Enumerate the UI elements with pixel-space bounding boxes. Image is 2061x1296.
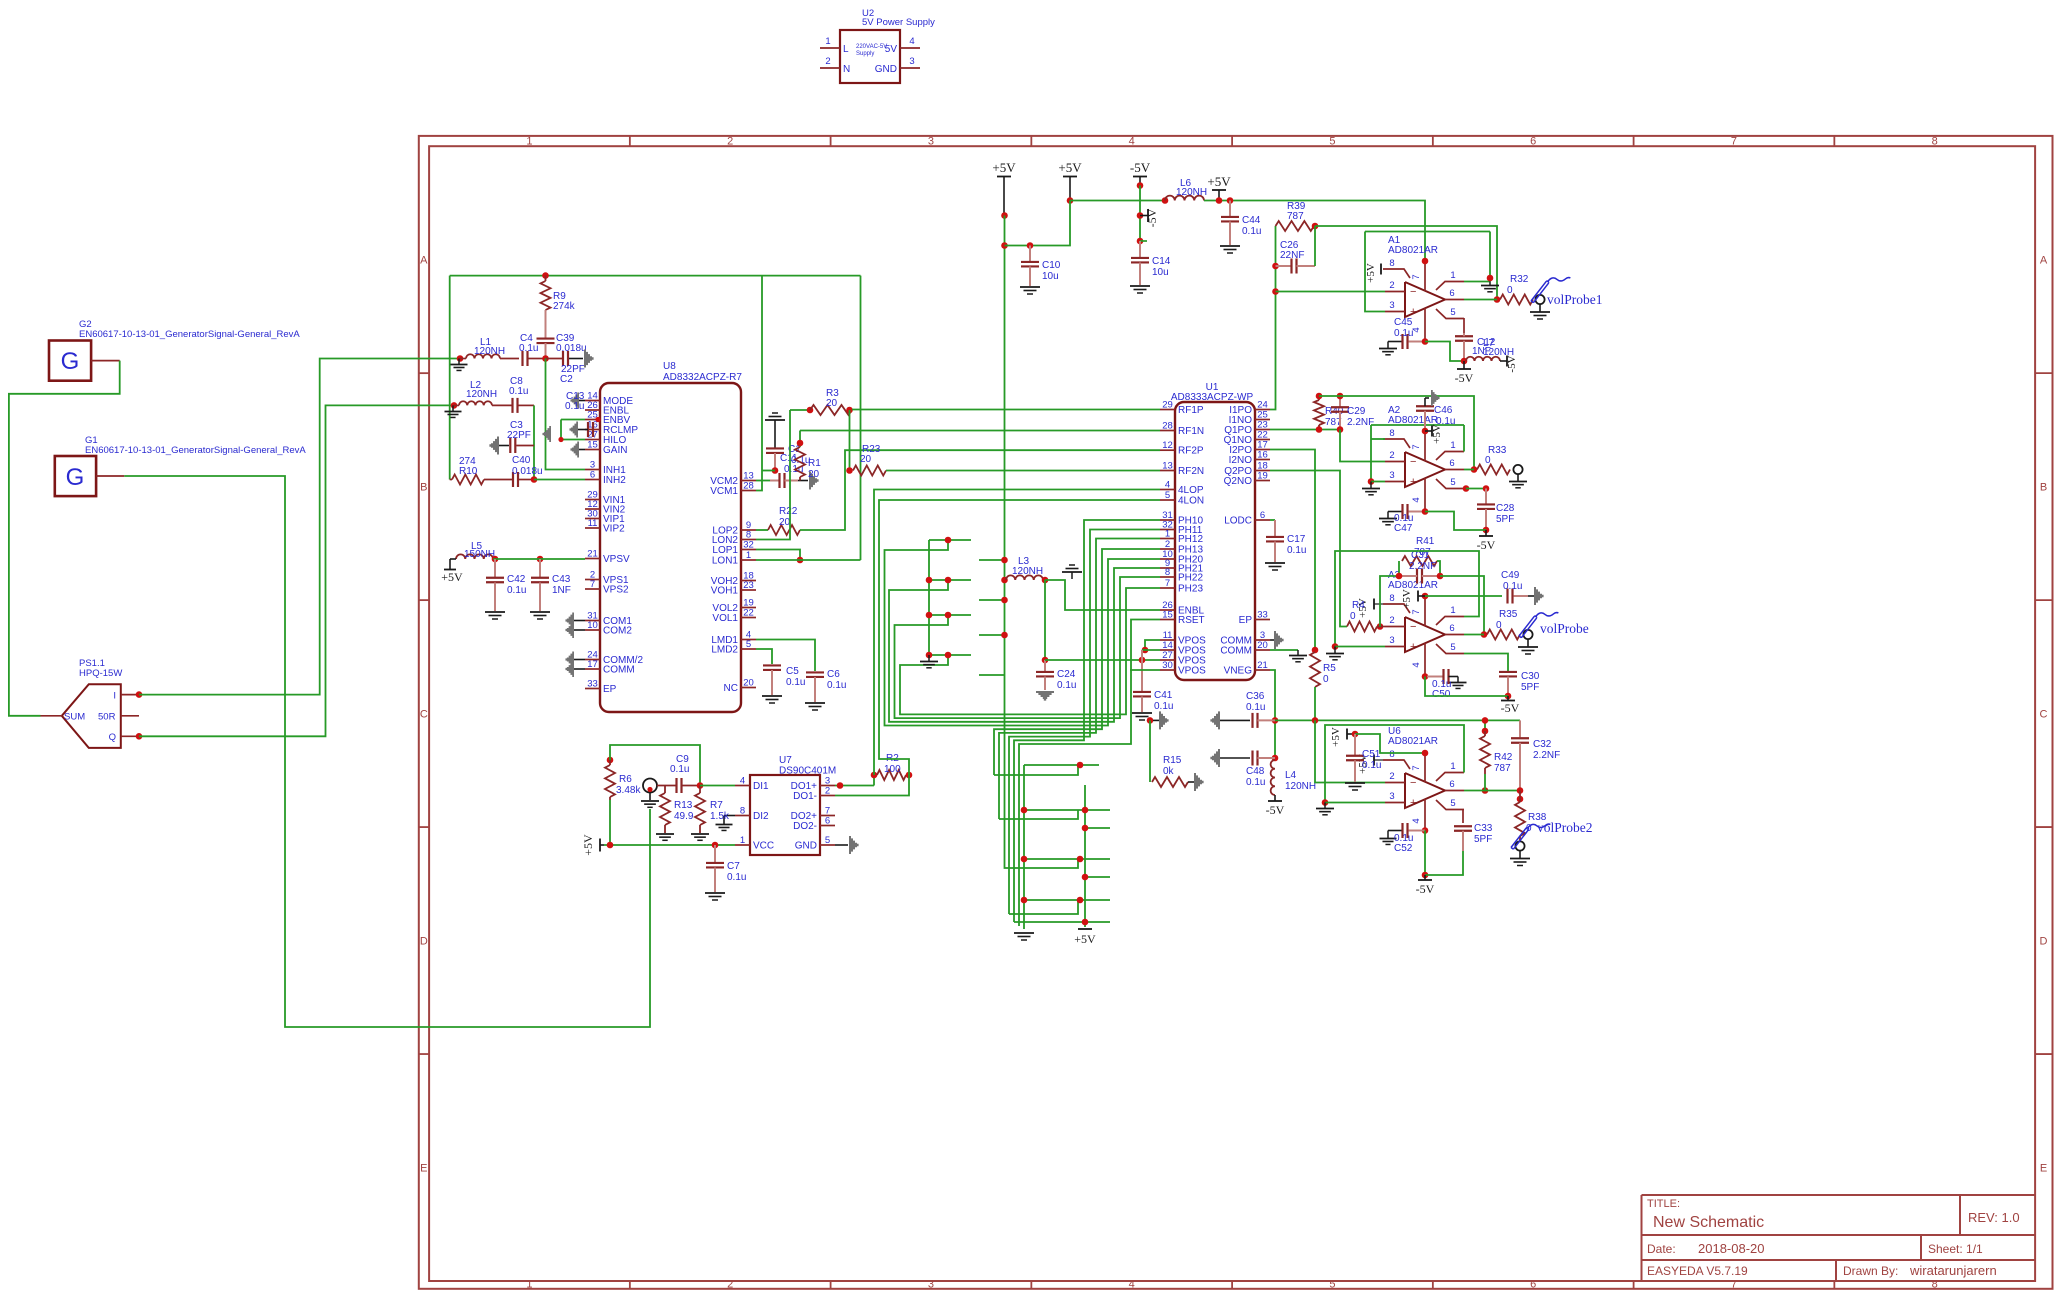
svg-text:VCC: VCC (753, 841, 774, 852)
svg-text:20: 20 (860, 454, 872, 465)
svg-text:3: 3 (1389, 635, 1394, 646)
resistor R44 0 (1347, 622, 1377, 632)
U8 pin 20 NC (741, 687, 756, 689)
wire PH20 route (885, 540, 1161, 726)
capacitor C47 0.1u (1388, 511, 1402, 513)
U1 pin 13 RF2N (1160, 470, 1175, 472)
svg-text:C: C (2040, 709, 2048, 721)
power supply module U2 (840, 30, 900, 83)
U8 pin 3 INH1 (585, 469, 600, 471)
U8 pin 15 GAIN (585, 449, 600, 451)
svg-text:5: 5 (1450, 642, 1455, 653)
+5V C51 node (1346, 729, 1348, 740)
svg-text:17: 17 (587, 659, 598, 670)
svg-text:C40: C40 (512, 455, 531, 466)
capacitor C52 0.1u (1422, 827, 1429, 834)
node -5V col (1137, 182, 1144, 189)
svg-text:C14: C14 (1152, 256, 1171, 267)
svg-text:EN60617-10-13-01_GeneratorSign: EN60617-10-13-01_GeneratorSignal-General… (85, 445, 306, 456)
svg-text:-5V: -5V (1266, 803, 1285, 817)
upper ladder stub y675 (979, 674, 1005, 676)
U6 pin 6 (1445, 790, 1464, 792)
svg-text:2: 2 (825, 56, 830, 67)
ground arrow GAIN (570, 442, 579, 458)
capacitor C26 22NF (1276, 265, 1292, 267)
svg-text:C49: C49 (1501, 570, 1520, 581)
U7 pin 7 DO2+ (820, 815, 835, 817)
inductor L4 120NH (1271, 760, 1275, 795)
resistor R1 20 (799, 431, 801, 448)
node C4 C39 junction (542, 355, 549, 362)
svg-text:DI2: DI2 (753, 811, 769, 822)
capacitor C36 0.1u (1210, 711, 1220, 729)
svg-text:6: 6 (590, 469, 595, 480)
svg-text:VOL1: VOL1 (712, 613, 738, 624)
U1 pin 33 EP (1255, 619, 1270, 621)
svg-text:DI1: DI1 (753, 781, 769, 792)
wire A3 fb left (1380, 576, 1399, 627)
svg-text:G: G (61, 348, 80, 375)
op-amp U6 AD8021AR (1405, 773, 1445, 808)
upper ladder rung y615 (929, 614, 971, 616)
wire PH13 route (994, 549, 1160, 775)
node R41 C31 right (1437, 573, 1444, 580)
earth above VCM cap (772, 412, 778, 414)
upper ladder rail (928, 540, 930, 655)
U7 pin 1 VCC (735, 844, 750, 846)
svg-text:8: 8 (1165, 567, 1170, 578)
U7 pin 2 DO1- (820, 795, 835, 797)
A3 pin 1 (1436, 617, 1464, 626)
svg-text:New Schematic: New Schematic (1653, 1214, 1764, 1231)
U1 pin 19 Q2NO (1255, 480, 1270, 482)
ground at L2 input (452, 405, 454, 411)
resistor R42 787 (1484, 720, 1486, 731)
svg-text:C33: C33 (1474, 823, 1493, 834)
svg-text:volProbe: volProbe (1540, 621, 1589, 636)
svg-text:VPSV: VPSV (603, 554, 630, 565)
node C36 (1272, 717, 1279, 724)
svg-text:wiratarunjarern: wiratarunjarern (1909, 1263, 1997, 1278)
svg-text:2: 2 (1389, 615, 1394, 626)
U6 pin 5 (1436, 800, 1464, 810)
PS1.1 pin Q (121, 735, 139, 737)
svg-text:4: 4 (1411, 662, 1422, 667)
wire +5V branch to C10 (1005, 201, 1071, 246)
svg-text:5: 5 (1329, 1279, 1335, 1291)
+5V lower ladder (1078, 928, 1092, 930)
svg-text:0.1u: 0.1u (1394, 328, 1413, 339)
U1 pin 2 PH13 (1160, 548, 1175, 550)
U8 pin 6 INH2 (585, 479, 600, 481)
wire +rail R9 top (450, 275, 861, 277)
node R2 right (906, 772, 913, 779)
wire A3 pin7 to C49 (1425, 595, 1502, 597)
node C44 (1227, 197, 1234, 204)
svg-text:+5V: +5V (581, 834, 595, 856)
svg-text:5V: 5V (885, 44, 898, 55)
U8 pin 17 COMM (585, 668, 600, 670)
node C7 (712, 842, 719, 849)
A1 pin 8 (1383, 269, 1410, 278)
resistor R5 0 (1310, 652, 1320, 687)
wire rail left drop to R10 (449, 276, 451, 480)
svg-text:C24: C24 (1057, 669, 1076, 680)
svg-text:12: 12 (1162, 440, 1173, 451)
svg-text:1: 1 (526, 136, 532, 148)
op-amp A1 AD8021AR (1405, 282, 1445, 317)
probe volProbe1 (1535, 295, 1544, 304)
wire Q2PO to R44 (1270, 471, 1347, 627)
svg-text:C48: C48 (1246, 766, 1265, 777)
capacitor C40 0.018u (484, 479, 512, 481)
wire rail drop to R23 (849, 410, 851, 471)
svg-text:I2NO: I2NO (1229, 455, 1253, 466)
U7 pin 3 DO1+ (820, 785, 835, 787)
U7 pin 5 GND (820, 844, 835, 846)
A2 pin 8 (1383, 439, 1410, 448)
A2 pin 4 (1424, 478, 1426, 512)
svg-text:2: 2 (1389, 280, 1394, 291)
svg-text:5: 5 (825, 835, 830, 846)
wire U6 out (1464, 790, 1520, 792)
svg-text:COM2: COM2 (603, 626, 632, 637)
wire PH11 step (1009, 900, 1078, 914)
node ENBV (595, 417, 600, 422)
svg-text:0.1u: 0.1u (565, 401, 584, 412)
svg-text:0.1u: 0.1u (1246, 777, 1265, 788)
U7 pin 4 DI1 (735, 785, 750, 787)
svg-text:-5V: -5V (1477, 538, 1496, 552)
svg-text:L: L (843, 44, 849, 55)
U7 pin 6 DO2- (820, 825, 835, 827)
svg-text:100: 100 (884, 764, 901, 775)
probe terminal A2 (1513, 465, 1522, 474)
svg-text:50R: 50R (98, 712, 116, 723)
svg-text:3.48k: 3.48k (616, 785, 641, 796)
svg-text:274k: 274k (553, 301, 576, 312)
capacitor C30 5PF (1499, 671, 1517, 673)
svg-text:TITLE:: TITLE: (1647, 1198, 1680, 1210)
node C14 (1137, 238, 1144, 245)
svg-text:R5: R5 (1323, 663, 1336, 674)
resistor R3 20 (790, 409, 810, 411)
svg-text:R15: R15 (1163, 755, 1182, 766)
svg-text:R13: R13 (674, 800, 693, 811)
svg-text:20: 20 (808, 469, 820, 480)
capacitor C12 1NF (1455, 335, 1473, 337)
U1 pin 12 RF2P (1160, 449, 1175, 451)
node R7 top (697, 782, 704, 789)
wire A2 pin5 to C28 (1464, 488, 1466, 490)
A1 pin 5 (1436, 309, 1464, 319)
wire A3 pin5 to C30 (1464, 654, 1508, 672)
PS1.1 pin 50R stub (121, 715, 139, 717)
U6 ground net rect (1325, 725, 1464, 803)
capacitor C48 0.1u (1210, 749, 1220, 767)
U8 pin 11 VIP2 (585, 527, 600, 529)
node C26 left (1272, 263, 1279, 270)
svg-text:+5V: +5V (1074, 932, 1096, 946)
U8 pin 14 MODE (585, 400, 600, 402)
svg-text:R4: R4 (1352, 600, 1365, 611)
svg-text:G: G (66, 464, 85, 491)
svg-text:C32: C32 (1533, 739, 1552, 750)
svg-text:R22: R22 (779, 506, 798, 517)
node VCM cap (772, 467, 779, 474)
upper ladder rung y655 (929, 654, 971, 656)
resistor R35 0 (1487, 630, 1520, 640)
svg-text:E: E (2040, 1163, 2047, 1175)
wire LOP1 (756, 550, 800, 561)
wire U6 pin2 input (1315, 720, 1385, 782)
U1 pin 16 I2NO (1255, 459, 1270, 461)
svg-text:22PF: 22PF (507, 430, 531, 441)
A3 pin 8 (1383, 604, 1410, 613)
U1 pin 20 COMM (1255, 649, 1270, 651)
-5V below C28 (1485, 530, 1487, 536)
svg-text:I: I (113, 691, 116, 702)
title block (1642, 1194, 2036, 1196)
node R5 top (1312, 647, 1319, 654)
svg-text:LMD2: LMD2 (711, 645, 738, 656)
wire LON2 to R3 (756, 410, 790, 540)
svg-text:VPS2: VPS2 (603, 585, 629, 596)
U8 pin 24 COMM/2 (585, 659, 600, 661)
wire A2 pin2 input (1340, 430, 1385, 462)
svg-text:2018-08-20: 2018-08-20 (1698, 1241, 1765, 1256)
U1 pin 28 RF1N (1160, 430, 1175, 432)
earth lower ladder (1014, 932, 1034, 934)
svg-text:4: 4 (740, 775, 745, 786)
resistor R7 1.5k (699, 786, 701, 794)
svg-text:1: 1 (1450, 761, 1455, 772)
node +5V rail (1067, 197, 1074, 204)
svg-text:6: 6 (1530, 136, 1536, 148)
svg-text:VCM1: VCM1 (710, 486, 738, 497)
upper ladder rung y580 (929, 579, 971, 581)
svg-text:C44: C44 (1242, 215, 1261, 226)
svg-text:AD8333ACPZ-WP: AD8333ACPZ-WP (1171, 392, 1254, 403)
svg-text:R6: R6 (619, 774, 632, 785)
svg-text:−: − (1410, 286, 1416, 298)
resistor R32 0 (1500, 295, 1533, 305)
earth U6 pin3 (1324, 803, 1326, 809)
capacitor C39 0.018u (545, 310, 547, 338)
svg-text:+: + (1410, 476, 1416, 488)
node A2 pin4 (1422, 508, 1429, 515)
svg-text:10u: 10u (1042, 271, 1059, 282)
lower ladder rung y810 (1024, 809, 1110, 811)
resistor R15 0k (1149, 720, 1151, 782)
U8 pin 30 VIP1 (585, 518, 600, 520)
node R40 bottom (1316, 426, 1323, 433)
wire VPOS 27 row (1045, 659, 1160, 661)
lower ladder right rail (1084, 785, 1086, 927)
svg-text:AD8021AR: AD8021AR (1388, 580, 1438, 591)
U1 pin 4 4LOP (1160, 489, 1175, 491)
svg-text:RSET: RSET (1178, 615, 1205, 626)
U8 pin 13 VCM2 (741, 480, 756, 482)
svg-text:R41: R41 (1416, 536, 1435, 547)
U8 pin 22 VOL1 (741, 617, 756, 619)
svg-text:21: 21 (587, 548, 598, 559)
node R39 right (1312, 223, 1319, 230)
svg-text:5PF: 5PF (1496, 514, 1514, 525)
capacitor VCM column (766, 447, 784, 449)
U6 pin 4 (1424, 799, 1426, 833)
svg-text:0.1u: 0.1u (827, 680, 846, 691)
svg-text:B: B (420, 482, 427, 494)
A3 pin 4 (1424, 643, 1426, 677)
U1 pin 24 I1PO (1255, 409, 1270, 411)
wire A1 feedback (1315, 226, 1497, 300)
svg-text:0.1u: 0.1u (1287, 545, 1306, 556)
op-amp IC U8 AD8332ACPZ-R7 (600, 383, 741, 712)
svg-text:-5V: -5V (1145, 208, 1159, 227)
wire PH23 route (900, 588, 1160, 714)
wire L3 to ENBL (1045, 580, 1160, 610)
svg-text:EN60617-10-13-01_GeneratorSign: EN60617-10-13-01_GeneratorSignal-General… (79, 329, 300, 340)
svg-text:A: A (420, 255, 428, 267)
wire DO1+ to R2 (835, 785, 874, 787)
U8 pin 12 VIN2 (585, 508, 600, 510)
power splitter PS1.1 HPQ-15W (62, 684, 121, 748)
U6 pin 7 (1424, 752, 1426, 782)
svg-text:0.018u: 0.018u (512, 466, 543, 477)
svg-text:1: 1 (1450, 605, 1455, 616)
A3 pin 2 (1385, 626, 1405, 628)
U8 pin 4 LMD1 (741, 639, 756, 641)
driver IC U7 DS90C401M (750, 775, 820, 855)
svg-text:0.1u: 0.1u (1057, 680, 1076, 691)
wire VCC row (604, 844, 735, 846)
svg-text:C30: C30 (1521, 671, 1540, 682)
node C42 (492, 556, 499, 563)
svg-text:PH23: PH23 (1178, 584, 1203, 595)
node stub y635 (1001, 632, 1008, 639)
svg-text:−: − (1410, 621, 1416, 633)
U1 pin 26 ENBL (1160, 609, 1175, 611)
node A1 pin7 (1422, 258, 1429, 265)
A3 pin 7 (1424, 596, 1426, 626)
earth upper ladder (928, 655, 930, 661)
wire C8 to INH2 node (533, 405, 535, 479)
node L6 left (1162, 197, 1169, 204)
svg-text:0: 0 (1485, 455, 1491, 466)
capacitor C14 10u (1139, 241, 1141, 257)
node LON1 LOP1 (797, 557, 804, 564)
node HILO (558, 437, 563, 442)
svg-text:+5V: +5V (1058, 160, 1082, 175)
svg-text:+: + (1410, 641, 1416, 653)
svg-text:R10: R10 (459, 466, 478, 477)
U6 pin 8 (1383, 760, 1410, 769)
U1 pin 18 Q2PO (1255, 470, 1270, 472)
wire +5V rail to L6 (1070, 200, 1165, 202)
svg-text:-5V: -5V (1501, 701, 1520, 715)
svg-text:8: 8 (740, 805, 745, 816)
node A1 pin2 row (1272, 288, 1279, 295)
svg-text:LODC: LODC (1224, 516, 1252, 527)
svg-text:5PF: 5PF (1521, 682, 1539, 693)
svg-text:5: 5 (746, 639, 751, 650)
A1 pin 1 (1436, 282, 1464, 291)
PS1.1 SUM input pin (41, 715, 62, 717)
wire VPSV (493, 558, 585, 560)
svg-text:Q2NO: Q2NO (1224, 476, 1253, 487)
svg-text:10u: 10u (1152, 267, 1169, 278)
U1 pin 23 Q1PO (1255, 429, 1270, 431)
U1 pin 10 PH20 (1160, 558, 1175, 560)
earth A1 pin1 (1489, 282, 1491, 286)
+5V symbol A2 pin7 (1425, 430, 1432, 432)
U2 pin 2 N (820, 67, 840, 69)
G2 output pin (91, 360, 120, 362)
upper ladder stub y560 (979, 559, 1005, 561)
node R38 top (1517, 787, 1524, 794)
svg-text:0.1u: 0.1u (670, 764, 689, 775)
svg-text:16: 16 (1257, 449, 1268, 460)
wire I1PO to A1 (1270, 226, 1276, 410)
capacitor C24 0.1u (1044, 660, 1046, 671)
svg-text:HPQ-15W: HPQ-15W (79, 668, 122, 679)
node U6 pin7 (1422, 750, 1429, 757)
svg-text:220VAC-5V: 220VAC-5V (856, 44, 887, 50)
svg-text:C36: C36 (1246, 691, 1265, 702)
lower ladder stub y828 (1085, 827, 1110, 829)
svg-text:E: E (420, 1163, 427, 1175)
-5V below C12 node (1463, 361, 1465, 369)
svg-text:1NF: 1NF (552, 585, 571, 596)
svg-text:7: 7 (1731, 136, 1737, 148)
A1 pin 2 (1385, 291, 1405, 293)
node -5V U6 (1422, 872, 1429, 879)
svg-text:5V Power Supply: 5V Power Supply (862, 17, 935, 28)
svg-text:C45: C45 (1394, 317, 1413, 328)
svg-text:2: 2 (825, 785, 830, 796)
svg-text:2: 2 (1389, 771, 1394, 782)
wire RF1P (852, 409, 1160, 411)
U1 pin 15 RSET (1160, 619, 1175, 621)
U8 pin 25 ENBV (585, 419, 600, 421)
svg-text:B: B (2040, 482, 2047, 494)
svg-text:20: 20 (826, 398, 838, 409)
U8 pin 7 VPS2 (585, 588, 600, 590)
node L1 input (457, 355, 464, 362)
A3 pin 5 (1436, 644, 1464, 654)
svg-text:23: 23 (743, 580, 754, 591)
svg-text:29: 29 (1162, 399, 1173, 410)
U8 pin 28 VCM1 (741, 490, 756, 492)
svg-text:EASYEDA V5.7.19: EASYEDA V5.7.19 (1647, 1264, 1748, 1278)
node INH2 junction (531, 476, 538, 483)
node A2 pin7 (1422, 428, 1429, 435)
svg-text:120NH: 120NH (1012, 566, 1043, 577)
svg-text:COMM: COMM (1220, 646, 1252, 657)
svg-text:Supply: Supply (856, 51, 874, 57)
U1 pin 8 PH22 (1160, 576, 1175, 578)
wire LMD1 to C6 (756, 640, 815, 672)
resistor R6 3.48k (607, 757, 614, 764)
G1 output pin (96, 475, 124, 477)
node A3 output (1481, 631, 1488, 638)
probe volProbe2 (1515, 841, 1524, 850)
U8 pin 16 RCLMP (585, 429, 600, 431)
svg-text:+5V: +5V (1207, 174, 1231, 189)
svg-text:1: 1 (1450, 270, 1455, 281)
svg-text:4: 4 (1411, 818, 1422, 823)
